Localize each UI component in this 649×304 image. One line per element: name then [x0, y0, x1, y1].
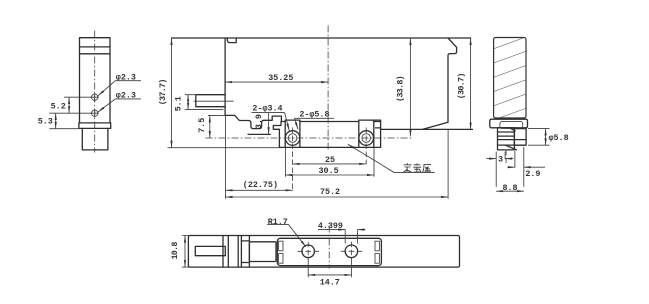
front view top edge	[172, 37, 471, 39]
dim 2.9 arrows	[507, 166, 515, 168]
nozzle diagonal top	[510, 128, 515, 131]
screw hole right crosshair	[341, 242, 363, 260]
hole B phi2.3	[92, 110, 98, 116]
dim 10.8 line	[184, 236, 186, 268]
svg-text:φ5.8: φ5.8	[549, 133, 569, 143]
nozzle block lines	[498, 132, 515, 145]
dim 35.25 line	[225, 81, 328, 83]
top-left clip notch	[227, 38, 236, 43]
svg-text:(30.7): (30.7)	[457, 73, 467, 99]
dim 4.399 extensions	[345, 230, 357, 244]
dim 3 arrows	[486, 158, 496, 160]
dim 8.8 line	[496, 190, 524, 192]
svg-text:5.2: 5.2	[51, 102, 66, 112]
label R1.7 underline and leader	[267, 225, 306, 247]
svg-text:φ2.3: φ2.3	[116, 72, 136, 82]
svg-text:5.3: 5.3	[38, 116, 53, 126]
top view section A lines	[241, 241, 249, 263]
svg-text:14.7: 14.7	[320, 277, 340, 287]
dim 2.9 extensions	[515, 147, 524, 187]
screw hole left R1.7	[302, 245, 315, 258]
fiber tail bar	[196, 95, 225, 107]
front body bottom-right edge and chamfer	[381, 122, 473, 129]
svg-text:30.5: 30.5	[319, 166, 339, 176]
svg-text:φ2.3: φ2.3	[116, 91, 136, 101]
left hole vertical centerline	[292, 128, 294, 191]
svg-text:7.5: 7.5	[197, 118, 207, 133]
right view flange	[490, 119, 528, 128]
nozzle diagonal bottom	[505, 145, 516, 150]
right view hatched body	[494, 38, 526, 119]
dim (33.8) line	[409, 38, 411, 136]
dim 75.2 line	[226, 196, 449, 198]
left view body outline	[80, 38, 111, 123]
nozzle centerline	[505, 150, 507, 163]
dim 5.1 line	[187, 95, 189, 110]
dim 5.1 extensions	[185, 95, 224, 110]
base clip right upper	[375, 241, 379, 251]
left boss	[285, 120, 300, 147]
dim 10.8 extensions	[182, 236, 189, 268]
label anzhuangzuo glyphs	[404, 163, 432, 172]
right view nozzle left block	[498, 128, 515, 150]
right extension line down	[447, 129, 449, 198]
top view outer outline	[188, 236, 459, 268]
right view boss block (phi5.8)	[514, 129, 526, 146]
dim 25 line	[293, 163, 367, 165]
svg-text:R1.7: R1.7	[268, 217, 288, 227]
dim 5.3 line	[55, 113, 57, 129]
mounting base left end step	[273, 122, 281, 148]
svg-text:8.8: 8.8	[502, 183, 517, 193]
front body left edge	[224, 38, 226, 115]
dim 4.399 lines	[318, 229, 345, 231]
top view divider b	[227, 236, 229, 268]
right boss	[359, 120, 374, 147]
base clip left lower	[279, 254, 283, 264]
top view divider d	[240, 236, 242, 268]
dim phi5.8 extensions	[528, 129, 550, 146]
front body right edge and top-right step	[448, 38, 457, 122]
dim 14.7 line	[308, 274, 351, 276]
top view divider a	[222, 236, 224, 268]
dim 14.7 extensions	[308, 259, 351, 278]
svg-text:35.25: 35.25	[268, 73, 293, 83]
fiber tail centerline	[194, 100, 234, 102]
dim (37.7) line	[171, 38, 173, 148]
top view main centerline	[328, 226, 330, 269]
left view body upper line 2	[80, 53, 111, 55]
mounting hole right phi5.8/phi3.4	[359, 131, 374, 146]
mounting base top edge	[281, 121, 380, 123]
svg-text:2-φ3.4: 2-φ3.4	[252, 103, 282, 113]
svg-text:2.9: 2.9	[525, 169, 540, 179]
svg-text:25: 25	[325, 155, 335, 165]
svg-text:5.1: 5.1	[173, 96, 183, 111]
dim 30.5 extensions	[285, 148, 374, 177]
small ledge line under step	[248, 133, 270, 135]
dim 5.2 extension lines	[49, 97, 91, 113]
screw hole left crosshair	[298, 242, 320, 260]
mounting base right end	[371, 120, 380, 147]
right hole vertical centerline	[365, 128, 367, 164]
boss block mid line	[514, 139, 526, 141]
dim 3.9 line	[268, 113, 270, 135]
dim (22.75) line	[226, 189, 293, 191]
leader 2-phi3.4	[285, 113, 290, 131]
hole A phi2.3	[92, 94, 98, 100]
right view flange inner	[500, 122, 523, 129]
label 2-phi3.4 underline	[251, 112, 284, 114]
top view divider e	[248, 236, 250, 268]
svg-text:(22.75): (22.75)	[243, 180, 278, 190]
leader phi2.3 lower	[98, 99, 141, 112]
mounting base bottom edge	[279, 146, 380, 148]
left view bottom block	[82, 128, 108, 150]
leader phi2.3 upper	[98, 81, 141, 96]
top view tongue B	[249, 242, 276, 262]
dim 5.2 line	[68, 97, 70, 113]
dim 5.3 extension line	[49, 128, 79, 130]
leader anzhuangzuo (mounting base)	[348, 144, 435, 172]
svg-text:3: 3	[498, 154, 503, 164]
mounting hole left phi5.8/phi3.4	[285, 131, 300, 146]
top view divider c	[237, 236, 239, 268]
dim 7.5 extension	[208, 114, 225, 116]
left view body upper line 1	[80, 46, 111, 48]
base clip right lower	[375, 254, 379, 264]
main vertical centerline	[327, 26, 329, 151]
svg-text:3.9: 3.9	[254, 114, 264, 129]
svg-text:(37.7): (37.7)	[158, 79, 168, 105]
svg-text:75.2: 75.2	[320, 187, 340, 197]
dim 3 extensions	[496, 152, 505, 187]
svg-text:(33.8): (33.8)	[395, 76, 405, 102]
dim (37.7) bottom extension	[168, 147, 281, 149]
label 2-phi5.8 underline	[295, 117, 335, 119]
top view mounting base outline	[277, 238, 381, 265]
top view left tongue (fiber tip)	[195, 246, 225, 255]
dim phi5.8 line	[545, 129, 547, 146]
screw hole right R1.7	[345, 245, 358, 258]
holes horizontal centerline	[206, 137, 412, 139]
left view flange band	[79, 123, 111, 128]
left view vertical centerline	[94, 31, 96, 153]
leader 2-phi5.8	[295, 118, 299, 129]
base clip left upper	[279, 241, 283, 251]
dim 30.5 line	[285, 174, 374, 176]
svg-text:10.8: 10.8	[170, 242, 180, 260]
dim 7.5 line	[209, 115, 211, 138]
dim (30.7) line	[470, 38, 472, 129]
front body lower-left step profile	[225, 115, 281, 128]
left extension line down	[225, 115, 227, 198]
